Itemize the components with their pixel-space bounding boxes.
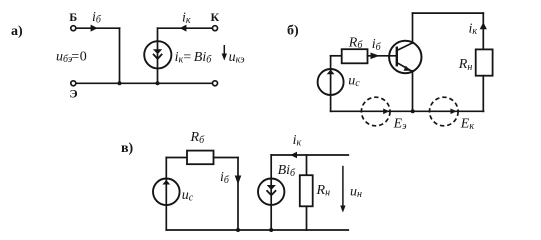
svg-text:Biб: Biб: [194, 50, 212, 66]
svg-text:iб: iб: [92, 10, 102, 26]
svg-text:К: К: [211, 10, 220, 24]
svg-text:uс: uс: [182, 188, 194, 204]
svg-text:uс: uс: [348, 74, 360, 90]
svg-text:uн: uн: [350, 184, 362, 200]
svg-text:б): б): [287, 24, 299, 39]
svg-text:uбэ: uбэ: [56, 49, 73, 65]
svg-text:0: 0: [80, 49, 87, 64]
svg-text:iб: iб: [220, 170, 230, 186]
svg-text:Э: Э: [70, 87, 78, 101]
svg-text:=: =: [71, 49, 79, 64]
svg-text:в): в): [121, 141, 134, 156]
svg-text:iк: iк: [293, 133, 302, 149]
svg-text:iк: iк: [182, 11, 191, 27]
svg-text:iб: iб: [372, 37, 382, 53]
svg-text:iк: iк: [175, 50, 184, 66]
svg-text:Eэ: Eэ: [393, 116, 408, 132]
svg-text:Biб: Biб: [278, 163, 296, 179]
svg-text:Rн: Rн: [458, 57, 473, 73]
svg-text:=: =: [183, 50, 191, 65]
svg-text:Rн: Rн: [316, 183, 331, 199]
svg-text:uкэ: uкэ: [229, 50, 246, 66]
svg-text:Rб: Rб: [190, 130, 206, 146]
svg-text:Eк: Eк: [460, 116, 475, 132]
svg-text:iк: iк: [469, 22, 478, 38]
svg-text:а): а): [11, 24, 23, 39]
svg-text:Rб: Rб: [348, 35, 364, 51]
svg-text:Б: Б: [69, 10, 77, 24]
